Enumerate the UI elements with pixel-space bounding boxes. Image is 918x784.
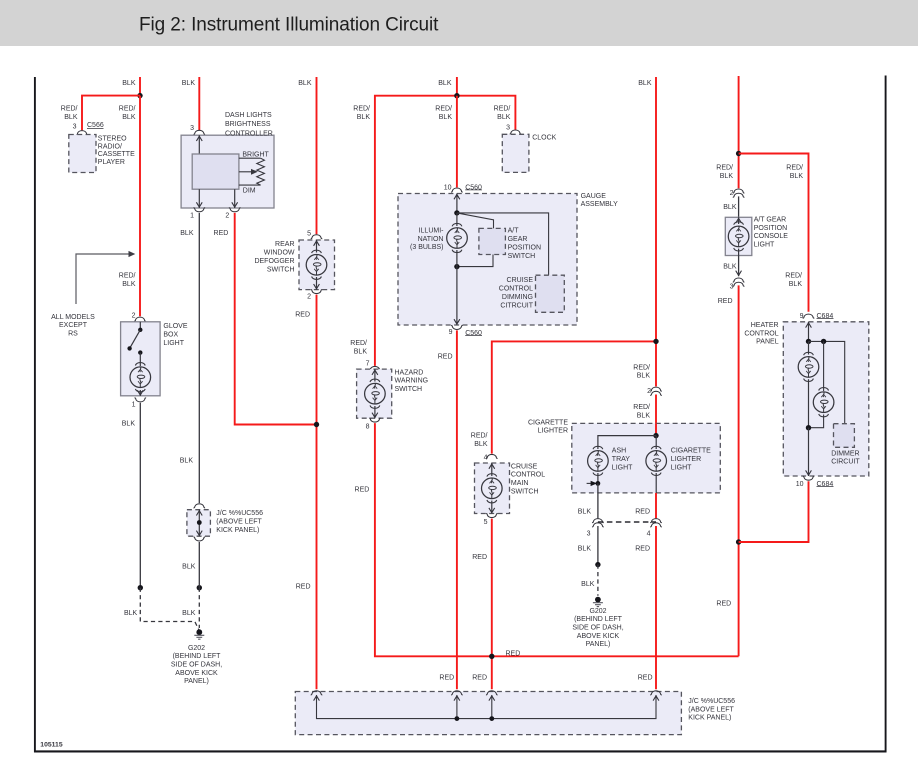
wire BLK console light to connector — [738, 256, 740, 277]
svg-text:RED: RED — [214, 230, 229, 237]
ground G202 left — [194, 629, 204, 639]
wire BLK to ground splice — [597, 526, 599, 565]
dimmer circuit box — [834, 424, 855, 448]
wire BLK top stub column E — [655, 77, 657, 386]
connector bus shell cruise wire — [486, 691, 498, 695]
connector C684 pin 10 shell — [803, 476, 815, 480]
wire heater bulb 2 return — [809, 415, 824, 428]
wire to cruise control dimming circuit — [457, 213, 549, 275]
bulb hazard warning switch illumination — [365, 379, 386, 408]
wire heater bulb 1 return — [808, 379, 810, 428]
wire RED cruise down to junction connector bus — [491, 519, 493, 690]
wire heater bulb 2 feed — [823, 341, 825, 391]
bulb cruise control main switch illumination — [482, 474, 503, 503]
wire RED/BLK distribution to hazard and clock — [375, 96, 516, 366]
svg-text:3: 3 — [730, 284, 734, 291]
node heater splice B — [821, 339, 826, 344]
svg-text:C560: C560 — [465, 330, 482, 337]
svg-text:RED/BLK: RED/BLK — [633, 364, 650, 379]
glove box light switch — [139, 322, 141, 330]
svg-text:RED: RED — [438, 354, 453, 361]
diagram frame bottom border — [34, 750, 887, 752]
bulb heater control panel illumination 2 — [813, 388, 834, 417]
node gauge splice A — [454, 210, 459, 215]
title banner — [0, 0, 918, 46]
svg-text:BLK: BLK — [182, 610, 196, 617]
wire BLK top stub column C — [316, 77, 318, 234]
controller wiper arrow — [239, 171, 252, 173]
connector cruise pin 4 — [486, 454, 498, 458]
glove box light box — [121, 322, 161, 396]
svg-text:RED/BLK: RED/BLK — [119, 106, 136, 121]
svg-text:10: 10 — [444, 184, 452, 191]
svg-text:C560: C560 — [465, 185, 482, 192]
svg-text:3: 3 — [190, 125, 194, 132]
svg-text:3: 3 — [73, 124, 77, 131]
wire RED defogger down to junction connector bus — [316, 295, 318, 690]
cruise control dimming circuit box — [536, 275, 565, 312]
node heater return junction — [736, 539, 741, 544]
svg-text:DASH LIGHTSBRIGHTNESSCONTROLLE: DASH LIGHTSBRIGHTNESSCONTROLLER — [225, 112, 273, 137]
svg-text:RED/BLK: RED/BLK — [716, 165, 733, 180]
node clock distribution junction — [454, 93, 459, 98]
controller pin 2 internal lead — [234, 189, 236, 208]
svg-text:9: 9 — [449, 329, 453, 336]
bus internal lead cruise — [491, 695, 493, 719]
svg-text:RED: RED — [506, 651, 521, 658]
connector console light pin 2 inline — [733, 189, 745, 193]
connector clock pin 3 — [510, 130, 522, 134]
wire BLK J/C UC556 to ground splice — [198, 542, 200, 588]
connector controller pin 3 — [194, 130, 206, 134]
connector cruise pin 5 — [486, 514, 498, 518]
controller rheostat BRIGHT lead — [239, 157, 261, 159]
A/T gear position console light box — [725, 217, 752, 255]
wire RED cigarette down to junction connector bus — [655, 526, 657, 689]
wire BLK top stub column B — [198, 77, 200, 130]
svg-text:BLK: BLK — [298, 80, 312, 87]
wire RED/BLK column A to glove box light — [139, 96, 141, 317]
wire RED/BLK stub inside box — [655, 423, 657, 435]
junction connector J/C %%UC556 bottom box — [295, 692, 681, 735]
svg-text:RED/BLK: RED/BLK — [471, 433, 488, 448]
node cruise wire joins bottom bus — [489, 654, 494, 659]
wire heater bulb 1 feed — [808, 341, 810, 354]
svg-text:BRIGHT: BRIGHT — [242, 151, 269, 158]
controller rheostat DIM lead — [239, 184, 261, 186]
wire to A/T gear position switch — [457, 213, 494, 229]
wire BLK dashed controller to ground G202 — [198, 588, 200, 628]
node cigarette lighter splice — [653, 433, 658, 438]
svg-text:RED: RED — [635, 508, 650, 515]
connector cigarette pin 2 inline — [650, 387, 662, 391]
connector C560 pin 10 shell — [451, 188, 463, 192]
svg-text:BLK: BLK — [122, 80, 136, 87]
node ash tray ground splice — [596, 481, 601, 486]
bulb A/T gear position console light — [728, 222, 749, 251]
cigarette lighter box — [572, 423, 721, 493]
defogger internal lead top — [316, 240, 318, 253]
wire BLK top stub column D — [456, 77, 458, 96]
connector dashed tie line — [598, 521, 656, 523]
node bus splice gauge — [455, 716, 460, 721]
hazard internal lead top — [374, 369, 376, 381]
svg-text:J/C %%UC556(ABOVE LEFTKICK PAN: J/C %%UC556(ABOVE LEFTKICK PANEL) — [216, 510, 263, 534]
defogger internal lead bottom — [316, 277, 318, 290]
svg-text:RED: RED — [472, 675, 487, 682]
svg-text:RED: RED — [716, 601, 731, 608]
svg-text:Fig 2: Instrument Illumination: Fig 2: Instrument Illumination Circuit — [139, 15, 439, 36]
connector pin 4 inline — [650, 519, 662, 523]
node ground splice G202 right — [595, 562, 600, 567]
svg-text:RED: RED — [472, 554, 487, 561]
rear window defogger switch box — [299, 240, 335, 290]
svg-text:BLK: BLK — [438, 80, 452, 87]
wire cigarette lighter bulb feed — [655, 436, 657, 449]
svg-text:RED: RED — [439, 675, 454, 682]
svg-text:3: 3 — [587, 530, 591, 537]
svg-text:5: 5 — [484, 519, 488, 526]
svg-text:RED: RED — [718, 298, 733, 305]
svg-text:10: 10 — [796, 481, 804, 488]
svg-text:RED/BLK: RED/BLK — [119, 273, 136, 288]
wire RED/BLK top stub column F — [738, 76, 740, 188]
node heater splice A — [806, 339, 811, 344]
bus internal lead gauge — [456, 695, 458, 719]
svg-text:RED: RED — [296, 584, 311, 591]
dash lights brightness controller box — [181, 135, 274, 208]
svg-text:BLK: BLK — [180, 457, 194, 464]
svg-text:BLK: BLK — [182, 563, 196, 570]
svg-text:RED/BLK: RED/BLK — [350, 340, 367, 355]
svg-text:BLK: BLK — [581, 581, 595, 588]
svg-text:RED/BLK: RED/BLK — [435, 106, 452, 121]
node heater branch junction — [736, 151, 741, 156]
svg-text:2: 2 — [647, 388, 651, 395]
diagram frame right border — [885, 76, 887, 753]
wire BLK controller pin 1 down to junction connector — [198, 213, 200, 503]
wire RED heater return to console column — [739, 481, 809, 542]
connector J/C UC556 entry shell — [194, 504, 206, 508]
all models except RS pointer arrow — [76, 254, 129, 304]
wire BLK into console light — [738, 196, 740, 217]
connector bus shell cigarette wire — [650, 691, 662, 695]
svg-text:3: 3 — [506, 125, 510, 132]
wire RED/BLK branch to heater control panel — [739, 154, 809, 312]
svg-text:7: 7 — [366, 361, 370, 368]
console light internal bottom — [738, 249, 740, 256]
node controller ground splice — [197, 585, 202, 590]
J/C UC556 internal lead — [198, 510, 200, 537]
connector C566 shell — [76, 131, 88, 135]
connector hazard pin 8 — [369, 418, 381, 422]
svg-text:2: 2 — [730, 190, 734, 197]
heater internal feed — [808, 322, 810, 342]
svg-text:CLOCK: CLOCK — [532, 135, 556, 142]
wire cigarette bulb return — [655, 473, 657, 493]
glove box bulb feed — [139, 353, 141, 366]
diagram frame left border — [34, 77, 36, 752]
connector glove box pin 1 — [135, 398, 147, 402]
svg-text:RED: RED — [295, 312, 310, 319]
connector controller pin 2 — [229, 208, 241, 212]
svg-text:C684: C684 — [817, 481, 834, 488]
wire RED console light down to bottom bus — [738, 285, 740, 656]
svg-text:RED/BLK: RED/BLK — [633, 404, 650, 419]
wire RED gauge output down to junction connector bus — [456, 330, 458, 689]
svg-text:BLK: BLK — [182, 80, 196, 87]
wire RED/BLK cruise main switch branch — [492, 341, 656, 453]
svg-text:C684: C684 — [817, 313, 834, 320]
svg-text:105115: 105115 — [40, 741, 63, 748]
wire to heater bulb 2 and dimmer — [809, 341, 845, 423]
bus internal tie — [317, 695, 657, 719]
cruise internal lead bottom — [491, 501, 493, 514]
svg-text:RED/BLK: RED/BLK — [786, 165, 803, 180]
bulb illumination 3 bulbs — [447, 223, 468, 252]
svg-text:BLK: BLK — [723, 204, 737, 211]
node glove ground splice — [138, 585, 143, 590]
svg-text:2: 2 — [307, 293, 311, 300]
svg-text:DIMMERCIRCUIT: DIMMERCIRCUIT — [831, 450, 860, 465]
svg-text:RED: RED — [635, 545, 650, 552]
node junction stereo branch — [137, 93, 142, 98]
wire glove bulb to box edge — [139, 390, 141, 396]
svg-text:BLK: BLK — [723, 264, 737, 271]
node gauge splice B — [454, 264, 459, 269]
wire RED hazard down to bottom bus — [375, 423, 739, 656]
node J/C UC556 splice — [197, 520, 202, 525]
bulb rear window defogger switch illumination — [306, 250, 327, 279]
wire BLK dashed glove to ground G202 — [140, 588, 198, 630]
wire A/T switch return — [457, 255, 493, 267]
svg-text:5: 5 — [307, 231, 311, 238]
svg-text:BLK: BLK — [578, 545, 592, 552]
wire RED cigarette below box — [655, 493, 657, 519]
svg-text:2: 2 — [132, 313, 136, 320]
ash tray ground pointer arrow — [587, 482, 592, 484]
wire BLK dashed to ground — [597, 565, 599, 596]
wire BLK ash tray to box edge — [597, 483, 599, 518]
node bus splice cruise — [489, 716, 494, 721]
svg-text:8: 8 — [366, 424, 370, 431]
hazard warning switch box — [357, 369, 392, 418]
svg-text:RED/BLK: RED/BLK — [785, 273, 802, 288]
connector C684 pin 9 shell — [803, 314, 815, 318]
wire RED/BLK into cigarette lighter box — [655, 395, 657, 436]
connector J/C UC556 exit shell — [194, 537, 206, 541]
svg-text:BLK: BLK — [638, 80, 652, 87]
connector hazard pin 7 — [369, 366, 381, 370]
svg-text:2: 2 — [225, 212, 229, 219]
wire illumination bulb return — [456, 250, 458, 267]
cruise control main switch box — [475, 463, 510, 514]
connector glove box pin 2 — [134, 317, 146, 321]
heater internal output lead — [808, 428, 810, 476]
heater control panel box — [783, 322, 869, 476]
svg-text:1: 1 — [190, 212, 194, 219]
connector C560 pin 9 shell — [451, 326, 463, 330]
stereo radio/cassette player — [69, 135, 96, 173]
hazard internal lead bottom — [374, 406, 376, 418]
svg-text:BLK: BLK — [578, 508, 592, 515]
node controller pin2 joins defogger wire — [314, 422, 319, 427]
wire to ash tray light — [598, 436, 656, 449]
ground G202 right — [593, 597, 603, 607]
wire RED/BLK column D to gauge assembly — [456, 96, 458, 188]
svg-text:RED/BLK: RED/BLK — [494, 106, 511, 121]
connector console light pin 3 inline — [733, 278, 745, 282]
svg-text:BLK: BLK — [180, 230, 194, 237]
junction connector J/C %%UC556 left box — [187, 510, 211, 537]
gauge internal feed — [456, 194, 458, 213]
gauge internal output lead — [456, 267, 458, 325]
connector pin 3 inline — [592, 519, 604, 523]
bulb glove box light — [130, 363, 151, 392]
svg-text:RED/BLK: RED/BLK — [61, 106, 78, 121]
connector bus shell gauge wire — [451, 691, 463, 695]
svg-text:BLK: BLK — [122, 421, 136, 428]
node cruise branch junction — [653, 339, 658, 344]
svg-text:DIM: DIM — [243, 187, 256, 194]
A/T gear position switch box — [479, 228, 506, 254]
wire BLK top stub column A — [139, 77, 141, 96]
connector defogger pin 5 — [311, 235, 323, 239]
connector defogger pin 2 — [311, 290, 323, 294]
connector controller pin 1 — [194, 208, 206, 212]
svg-text:1: 1 — [132, 402, 136, 409]
wire BLK glove box to ground splice — [139, 403, 141, 588]
svg-text:C566: C566 — [87, 122, 104, 129]
connector bus shell defogger wire — [311, 691, 323, 695]
svg-text:9: 9 — [800, 313, 804, 320]
svg-text:BLK: BLK — [124, 610, 138, 617]
svg-text:J/C %%UC556(ABOVE LEFTKICK PAN: J/C %%UC556(ABOVE LEFTKICK PANEL) — [688, 698, 735, 722]
console light internal top — [738, 217, 740, 224]
wire RED/BLK to stereo — [82, 96, 140, 131]
bulb heater control panel illumination 1 — [798, 352, 819, 381]
wire ash tray return — [597, 473, 599, 483]
node heater splice C — [806, 425, 811, 430]
resistor rheostat element — [257, 158, 265, 185]
gauge assembly box — [398, 194, 577, 326]
clock box — [502, 134, 529, 172]
controller pin 3 internal lead — [198, 135, 200, 154]
svg-text:RED/BLK: RED/BLK — [353, 106, 370, 121]
bulb ash tray light — [588, 446, 609, 475]
cruise internal lead top — [491, 463, 493, 476]
svg-text:4: 4 — [647, 530, 651, 537]
controller internal module box — [192, 154, 239, 189]
controller pin 1 internal lead — [198, 189, 200, 208]
bulb cigarette lighter light — [646, 446, 667, 475]
illumination bulb feed — [456, 213, 458, 226]
svg-text:RED: RED — [355, 487, 370, 494]
wire RED controller pin 2 to defogger column — [235, 213, 317, 425]
svg-text:RED: RED — [638, 675, 653, 682]
